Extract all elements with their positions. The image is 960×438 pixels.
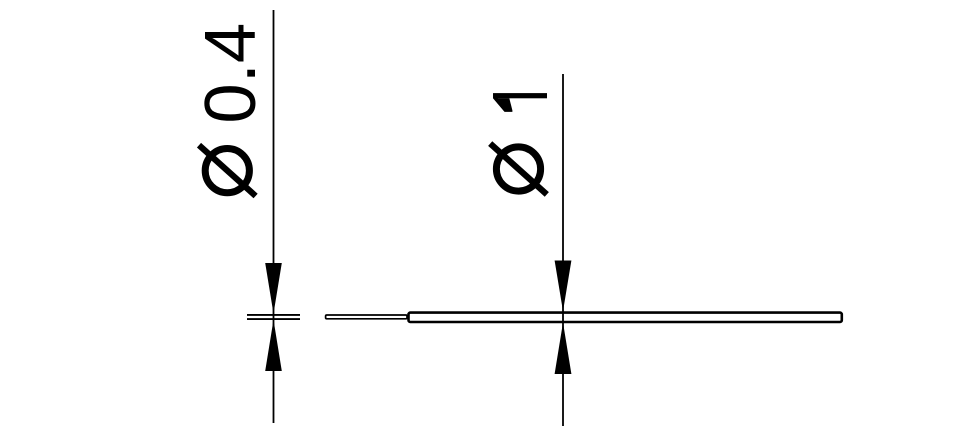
arrow up D0.4 xyxy=(265,263,282,314)
wire (0.4 mm tip) xyxy=(326,315,407,319)
extension tick bottom D0.4 xyxy=(247,318,300,320)
label value 1 xyxy=(493,93,547,112)
rod (1 mm body) xyxy=(409,313,842,322)
dimension line D1 xyxy=(562,74,564,426)
svg-text:0.4: 0.4 xyxy=(190,23,271,124)
dimension line D0.4 xyxy=(273,10,275,423)
label diameter symbol D0.4 xyxy=(199,145,256,196)
arrow down D1 xyxy=(555,323,572,375)
arrow up D1 xyxy=(555,261,572,312)
arrow down D0.4 xyxy=(265,320,282,371)
label diameter symbol D1 xyxy=(490,144,547,195)
extension tick top D0.4 xyxy=(247,314,300,316)
